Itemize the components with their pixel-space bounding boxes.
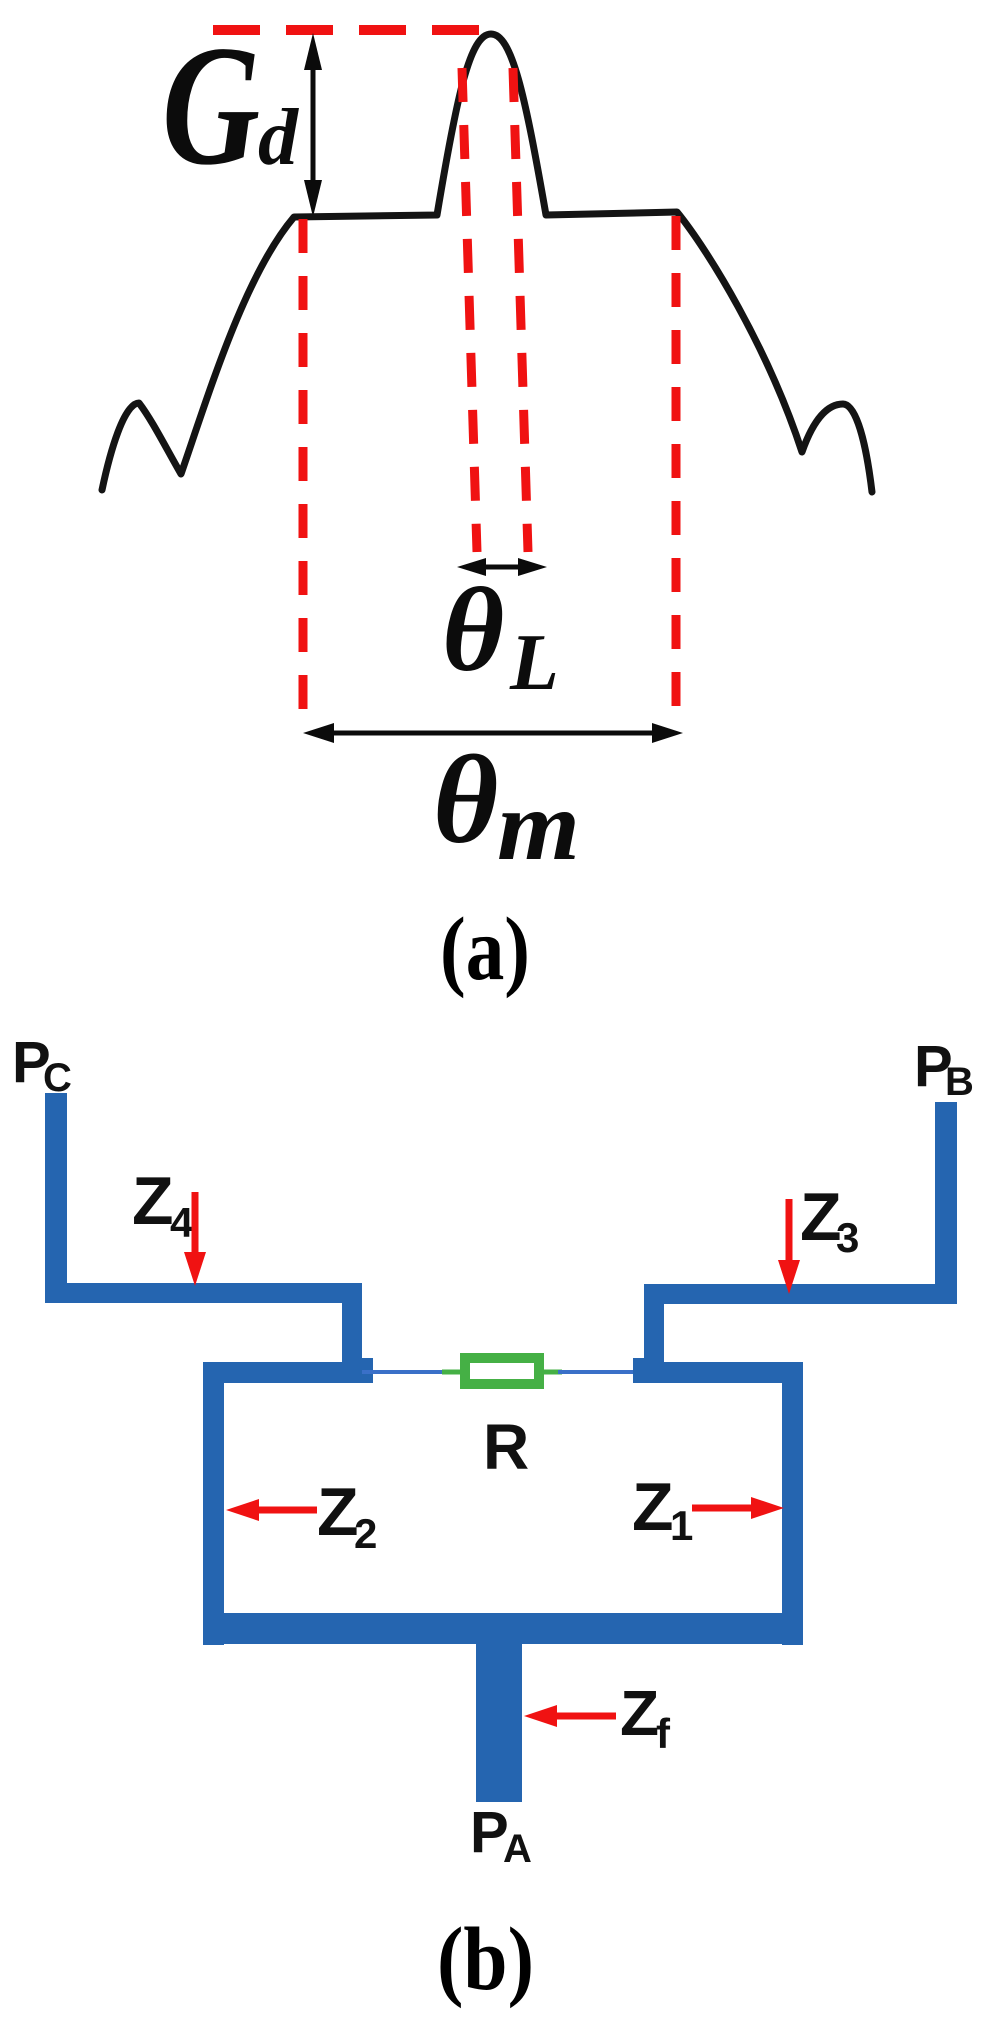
impedance arrow Z4 (red, down) [192, 1192, 199, 1254]
svg-text:A: A [503, 1827, 532, 1871]
svg-text:G: G [162, 11, 260, 201]
resistor lead left (green) [442, 1370, 462, 1375]
svg-text:L: L [509, 619, 559, 707]
right dashed beam-edge line [672, 216, 681, 717]
gain difference arrow Gd (double-headed vertical) [311, 58, 316, 192]
svg-text:4: 4 [170, 1199, 194, 1246]
left dashed beam-edge line [299, 219, 308, 717]
port PB microstrip [935, 1102, 957, 1304]
svg-text:Z: Z [132, 1163, 174, 1239]
svg-text:m: m [497, 770, 580, 881]
Z4-to-ring vertical section [342, 1283, 362, 1383]
impedance arrow Zf (red, left) [556, 1713, 616, 1720]
radiation pattern curve [102, 34, 872, 492]
junction tab left [360, 1358, 373, 1383]
svg-text:θ: θ [433, 731, 498, 870]
junction tab right [633, 1358, 647, 1383]
svg-text:R: R [483, 1411, 529, 1483]
svg-text:Z: Z [317, 1474, 359, 1550]
svg-text:Z: Z [632, 1469, 674, 1545]
feed line Zf [476, 1640, 522, 1802]
main beamwidth arrow (theta_m) [320, 731, 666, 736]
transmission line Z3 (upper-right arm) [644, 1284, 957, 1304]
impedance arrow Z2 (red, left) [242, 1507, 317, 1514]
wire to resistor (right, blue) [558, 1370, 640, 1374]
ring left line (Z2 branch) [203, 1362, 224, 1645]
svg-text:1: 1 [670, 1502, 693, 1549]
svg-text:θ: θ [442, 563, 504, 696]
svg-text:f: f [656, 1710, 671, 1757]
impedance arrow Z3 (red, down) [786, 1199, 793, 1262]
isolation resistor R [465, 1358, 539, 1384]
svg-text:3: 3 [836, 1214, 859, 1261]
wire to resistor (left, blue) [362, 1370, 446, 1374]
red dashed peak-level reference line [213, 25, 492, 35]
narrow beamwidth arrow (theta_L) [470, 565, 534, 570]
narrow-beam left dashed line [462, 68, 477, 552]
svg-text:B: B [945, 1060, 974, 1104]
narrow-beam right dashed line [513, 68, 528, 552]
impedance arrow Z1 (red, right) [692, 1505, 768, 1512]
svg-text:(b): (b) [437, 1910, 534, 2009]
transmission line Z4 (upper-left arm) [45, 1283, 362, 1303]
svg-text:Z: Z [620, 1677, 659, 1749]
ring top-left line [203, 1362, 362, 1383]
Z3-to-ring vertical section [644, 1284, 664, 1383]
svg-text:(a): (a) [440, 900, 530, 999]
ring bottom line [203, 1613, 803, 1644]
svg-text:2: 2 [354, 1510, 377, 1557]
svg-text:d: d [258, 94, 299, 182]
resistor lead right (green) [542, 1370, 562, 1375]
port PC microstrip [45, 1093, 67, 1293]
ring top-right line [644, 1362, 803, 1383]
svg-text:C: C [43, 1056, 72, 1100]
ring right line (Z1 branch) [782, 1362, 803, 1645]
